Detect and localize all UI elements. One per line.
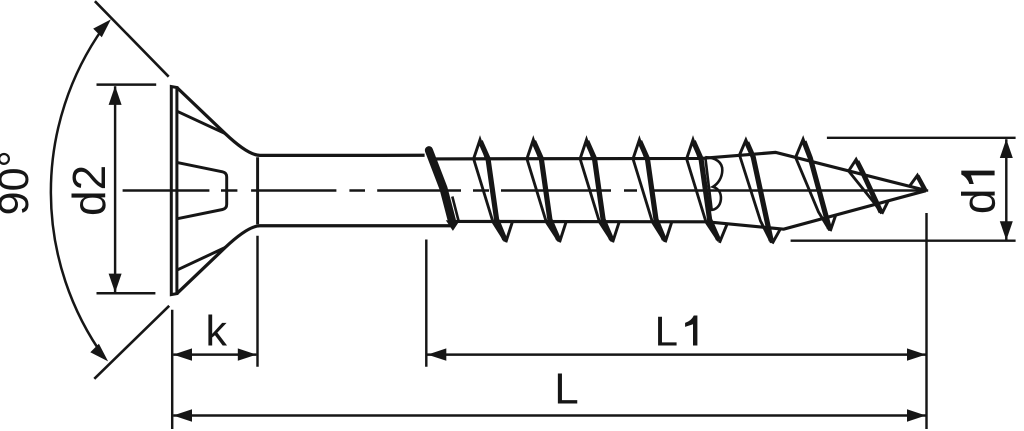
d2 extension tick top [97,83,157,86]
d2 extension tick bottom [97,292,156,295]
thread flank thin 7 [796,157,830,230]
svg-text:k: k [205,308,227,356]
d2 dimension line [114,86,116,292]
svg-text:90°: 90° [0,150,38,215]
thread crest lower 4 [665,221,672,242]
arc arrowhead bottom [90,344,108,362]
screw head face (flat top, edge-on) [171,87,177,295]
L1 extension line left (thread start) [425,240,427,367]
thread crest lower 5 [719,225,727,243]
L dimension line [173,414,925,416]
thread root transition curl [705,157,711,209]
k extension line right (junction) [256,236,258,367]
thread flank thick 4 [640,141,665,239]
thread crest lower 2 [560,221,567,242]
thread flank thin 5 [687,159,719,241]
thread flank thin 1 [474,159,505,241]
k dimension line [173,353,256,355]
thread crest upper 9 (tip) [910,175,925,189]
thread crest upper 3 [580,140,593,159]
d1 extension line bottom [791,239,1016,241]
thread crest upper 7 (taper) [796,139,811,161]
k extension line (head face) is shared with L; vertical at head face [171,310,173,429]
d1 extension line top [827,137,1016,139]
d1 dimension line [1005,139,1007,240]
thread crest lower 1 [506,221,513,242]
drive recess socket [177,162,227,218]
thread flank thin 2 [527,159,559,241]
thread crest lower 6 [772,229,780,244]
thread crest upper 8 (taper) [849,160,864,175]
thread start lower tip [446,220,460,231]
svg-text:L: L [655,308,678,355]
arc arrowhead top [93,19,111,37]
thread crest upper 6 (taper) [740,140,753,156]
thread flank thick 5 [693,141,718,239]
thread crest lower 8 [882,201,889,214]
thread flank thin 3 [580,159,612,241]
L1 dimension line [428,353,926,355]
thread flank thick 7 [804,141,829,228]
thread start sliver line [452,197,458,222]
thread flank thick 9 [917,176,925,190]
thread flank thick 3 [587,141,612,239]
recess wing upper [178,111,226,133]
svg-text:d: d [953,189,1005,215]
thread flank thin 8 [849,171,882,214]
L extension line right (tip) [925,213,927,429]
thread crest upper 1 [474,140,487,159]
recess wing lower [178,248,226,270]
thread flank thick 2 [534,141,559,239]
svg-text:d2: d2 [63,165,115,216]
svg-text:L: L [554,365,578,414]
thread crest lower 3 [613,221,620,242]
label d1 [953,171,1005,215]
head-shank junction line [256,157,259,224]
construction line bottom (head cone extension) [94,306,169,379]
thread crest lower 7 [830,215,836,231]
thread start bold flank [429,150,452,220]
centerline axis [123,189,929,191]
thread flank thick 1 [480,141,505,239]
thread flank thin 4 [633,159,664,241]
thread core top line + upper tip envelope [429,152,926,190]
90 degree dimension arc [51,28,105,358]
d2 arrow up [109,86,122,105]
thread flank thick 6 [747,142,771,240]
thread crest upper 2 [527,140,540,159]
d2 arrow down [109,274,122,293]
head cone upper edge + shank top line [177,88,425,156]
thread flank thin 6 [740,155,772,243]
thread flank thick 8 [857,161,881,212]
thread core bottom line + lower tip envelope [452,191,926,230]
thread crest upper 4 [633,140,646,159]
construction line top (head cone extension) [95,1,169,77]
thread crest upper 5 [687,140,700,159]
head cone lower edge + shank bottom line [177,226,451,294]
